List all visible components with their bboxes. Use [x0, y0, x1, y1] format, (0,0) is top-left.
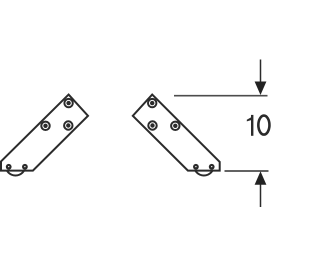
roller wheel (left carriage) [6, 156, 26, 176]
axle pin left (left carriage) [6, 164, 12, 170]
bracket body (right carriage) [133, 95, 220, 171]
rivet top (right carriage) [148, 99, 156, 107]
axle pin right (left carriage) [22, 164, 28, 170]
dimension extension line bottom [225, 170, 269, 172]
axle pin right (right carriage) [209, 164, 215, 170]
digit 1 stem [251, 115, 253, 136]
digit 0 [258, 116, 269, 135]
dimension extension line top [174, 95, 268, 97]
dimension arrow top (pointing down) [255, 60, 267, 96]
bracket body (left carriage) [1, 95, 88, 171]
axle pin left (right carriage) [193, 164, 199, 170]
roller wheel (right carriage) [194, 156, 214, 176]
rivet top (left carriage) [64, 99, 72, 107]
rivet middle-left (left carriage) [41, 122, 49, 130]
rivet middle-right (left carriage) [64, 121, 72, 129]
dimension arrow bottom (pointing up) [255, 171, 267, 207]
dimension label 10 [247, 115, 270, 136]
rivet middle-right (right carriage) [171, 122, 179, 130]
digit 1 flag [247, 117, 251, 121]
rivet middle-left (right carriage) [148, 121, 156, 129]
